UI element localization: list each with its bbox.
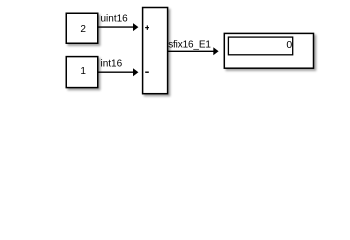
sum block: [143, 8, 168, 94]
minus sign input port 2: [145, 72, 149, 73]
svg-text:sfix16_E1: sfix16_E1: [168, 39, 211, 50]
constant block value 2: [66, 13, 98, 43]
svg-text:2: 2: [80, 24, 86, 35]
svg-text:uint16: uint16: [101, 14, 129, 25]
display block: [224, 33, 313, 68]
svg-text:0: 0: [286, 39, 292, 51]
constant block value 1: [66, 57, 98, 88]
wire W1 from constant 2 to sum + arrowhead: [98, 23, 138, 31]
svg-text:int16: int16: [101, 59, 123, 70]
wire W2 from constant 1 to sum + arrowhead: [98, 68, 138, 76]
plus sign input port 1: [145, 27, 149, 28]
svg-text:1: 1: [80, 66, 86, 77]
wire W3 from sum to display + arrowhead: [168, 47, 219, 55]
display value box: [228, 37, 292, 55]
